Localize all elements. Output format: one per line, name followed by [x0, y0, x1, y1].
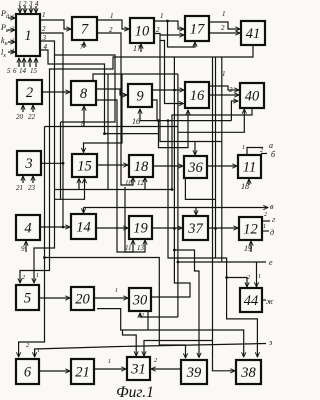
svg-text:2: 2 [247, 275, 250, 281]
wire block 9 out2 join [152, 100, 157, 121]
svg-text:4: 4 [12, 47, 15, 54]
wire block 15 out to block 18 [97, 164, 128, 166]
svg-text:1: 1 [42, 11, 46, 19]
wire bus x215.5 down to block 38 top 2 [216, 57, 258, 357]
wire block 1 out2 vertical bus x63 [40, 33, 63, 227]
wire block 8 bottom stub [83, 106, 85, 126]
svg-text:12: 12 [137, 179, 145, 187]
wire block 44 out to terminal zh [262, 299, 266, 301]
block 12 [239, 217, 262, 240]
block 18 [129, 155, 153, 177]
svg-text:17: 17 [190, 22, 205, 38]
wire terminal e feed to block 44 input 1 [256, 262, 258, 287]
block 31 [127, 357, 150, 380]
wire block 1 out1 to block 7 [40, 20, 71, 29]
wire block 6 out to block 21 [39, 370, 70, 372]
svg-text:2: 2 [229, 86, 233, 94]
wire bus x44.5 down to block 6 input 2 [19, 127, 45, 358]
svg-text:1: 1 [222, 10, 226, 18]
svg-text:3: 3 [28, 0, 33, 8]
wire net y189.5 across [55, 189, 173, 191]
wire block 30 bottom right down [147, 311, 149, 330]
svg-text:1: 1 [24, 28, 31, 44]
wire feeder into block 40 bottom [178, 109, 244, 132]
wire block 21 out to block 31 [94, 368, 126, 370]
wire block 16 out2 to block 40 [209, 94, 239, 96]
block 7 [72, 17, 97, 40]
svg-text:20: 20 [16, 113, 24, 121]
wire block 7 out2 to block 18 bottom 1 [97, 33, 133, 185]
junction at 63,163.3 [62, 162, 65, 165]
block 4 [16, 215, 40, 240]
wire input 4 top of block 1 [35, 6, 37, 13]
block 36 [184, 156, 207, 178]
block 8 [71, 81, 96, 105]
wire block 12 bottom stub 19 [250, 241, 252, 252]
junction at 172,189.5 [171, 188, 174, 191]
junction at 44.5,257.5 [43, 256, 46, 259]
svg-text:16: 16 [190, 88, 205, 104]
svg-text:10: 10 [125, 179, 133, 187]
wire staircase to block 39 top 2 [174, 250, 199, 358]
wire feed into block 15 top [84, 74, 123, 153]
wire block 30 out feedback up [151, 250, 190, 297]
block 39 [181, 360, 207, 384]
wire block 8 top out to y74 [93, 74, 178, 81]
terminal letter labels [266, 141, 276, 347]
svg-text:11: 11 [125, 244, 131, 252]
block 2 [17, 80, 42, 104]
svg-text:21: 21 [16, 184, 23, 192]
wire input Pv left of block 1 [8, 29, 15, 31]
wire input Pd left of block 1 [8, 17, 15, 19]
svg-text:14: 14 [19, 67, 27, 75]
wire input 15 bottom of block 1 [35, 58, 37, 67]
block 6 [16, 359, 39, 384]
wire input 1 top of block 1 [19, 6, 21, 13]
wire block 16 out1 to block 40 [209, 86, 239, 90]
block 44 [240, 288, 262, 312]
svg-text:18: 18 [241, 182, 249, 191]
junction at 174.4,250 [173, 249, 176, 252]
wire bus x168 down to y258 [168, 121, 216, 258]
svg-text:12: 12 [243, 222, 258, 238]
wire block 17 out2 to block 41 [209, 32, 240, 34]
wire block 19 out to block 37 [152, 227, 182, 229]
wire feeder into block 16 bottom [159, 110, 189, 148]
svg-text:1: 1 [222, 70, 226, 78]
svg-text:1: 1 [115, 288, 118, 294]
svg-text:2: 2 [23, 0, 27, 8]
block 3 [17, 151, 41, 175]
svg-text:7: 7 [80, 43, 84, 51]
block 10 [130, 18, 154, 43]
wire branch into block 17 left 2 [160, 34, 184, 36]
svg-text:2: 2 [109, 26, 113, 34]
svg-text:15: 15 [30, 67, 38, 75]
junction at 168,120.6 [167, 119, 170, 122]
wire net y126.5 across [45, 126, 178, 128]
wire block 11 bottom stub 18 [248, 179, 250, 185]
block 19 [129, 216, 152, 239]
svg-text:4: 4 [35, 0, 39, 8]
svg-text:2: 2 [264, 212, 267, 218]
junction at 104.5,133.6 [103, 132, 106, 135]
svg-text:17: 17 [133, 44, 142, 53]
wire block 1 out4 [40, 50, 105, 134]
block 15 [72, 154, 97, 177]
wire net y330 to block 31 top 1 [123, 330, 137, 356]
wire long net y120.6 into block 9 bottom [140, 109, 231, 121]
wire long net y207.5 to terminal v [84, 207, 269, 209]
svg-text:11: 11 [243, 160, 256, 176]
junction at 174.4,228.5 [173, 227, 176, 230]
junction at 226.6,277.5 [225, 276, 228, 279]
wire net y120.6 up into block 40 left [231, 101, 238, 121]
wire input 21 bottom of block 3 [22, 176, 24, 183]
svg-text:ж: ж [266, 297, 274, 306]
left input signal labels [0, 9, 9, 59]
svg-text:1: 1 [160, 12, 164, 20]
svg-text:36: 36 [187, 160, 203, 176]
wire block 10 out2 long [154, 34, 222, 142]
wire block 10 out1 to block 17 [154, 21, 184, 29]
svg-text:3: 3 [42, 34, 47, 42]
wire block 12 out2 to terminal g [262, 220, 270, 222]
wire bus x60.5 join [60, 122, 62, 199]
svg-text:16: 16 [132, 117, 140, 126]
wire input 22 bottom of block 2 [32, 105, 34, 112]
wire input kn left of block 1 [8, 41, 15, 43]
junction at 177.9,262 [177, 261, 180, 264]
svg-text:1: 1 [18, 0, 22, 8]
wire riser into block 18 bottom 2 [144, 178, 146, 190]
junction at 158.5,120.6 [157, 119, 160, 122]
svg-text:9: 9 [21, 245, 25, 253]
wire arrow into block 14 top [83, 208, 85, 214]
junction at 63,227 [62, 226, 65, 229]
svg-text:3: 3 [24, 156, 32, 172]
wire block 36 bottom out [185, 178, 215, 199]
wire arrow into block 36 top [194, 142, 196, 156]
svg-text:4: 4 [24, 221, 31, 237]
wire input 9 bottom of block 4 [25, 241, 27, 252]
wire block 9 out1 to block 16 [152, 89, 184, 91]
wire net y257.5 to block 39 top 1 [45, 258, 186, 359]
wire block 7 bottom stub [83, 42, 85, 48]
svg-text:2: 2 [12, 26, 15, 32]
svg-text:44: 44 [244, 293, 259, 309]
wire bus x125 to block 19 bottom 2 [125, 187, 145, 252]
wire block 8 out1 to block 9 [96, 89, 127, 95]
svg-text:2: 2 [156, 26, 160, 34]
svg-text:10: 10 [135, 24, 150, 40]
wire block 2 out to block 8 [42, 91, 70, 93]
svg-text:4: 4 [44, 43, 48, 51]
svg-text:2: 2 [26, 343, 29, 349]
block 11 [238, 155, 261, 178]
wire bus x108 [107, 74, 109, 190]
svg-text:2: 2 [22, 275, 25, 281]
wire block 17 out1 to block 41 [209, 22, 240, 29]
wire branch into block 44 input 2 [227, 278, 247, 288]
svg-text:2: 2 [26, 85, 33, 101]
block 41 [241, 21, 265, 45]
block 21 [71, 359, 94, 384]
wire block 20 out to block 30 [94, 297, 128, 299]
wire net y340.5 to block 31 top 2 [144, 341, 213, 357]
junction at 174.4,90 [173, 89, 176, 92]
block 9 [128, 84, 152, 107]
wire bus x212.5 long [212, 57, 214, 352]
svg-text:8: 8 [81, 120, 85, 128]
wire block 1 out3 across to bus [40, 41, 115, 122]
junction at 167.5,21 [166, 20, 169, 23]
svg-text:22: 22 [28, 113, 36, 121]
svg-text:40: 40 [245, 89, 260, 105]
svg-text:г: г [272, 215, 275, 224]
wire input 2 top of block 1 [24, 6, 26, 13]
block 14 [71, 214, 96, 239]
block 40 [240, 83, 264, 108]
svg-text:1: 1 [110, 12, 114, 20]
block 30 [129, 288, 151, 311]
svg-text:38: 38 [240, 365, 256, 381]
wire terminal z to block 6 input 1 [35, 344, 266, 358]
wire block 12 out1 to terminal d [262, 230, 269, 232]
wire input 6 bottom of block 1 [23, 58, 25, 67]
wire net y317 into block 30 bottom [140, 313, 178, 317]
pin and signal number labels [7, 0, 267, 365]
svg-text:41: 41 [246, 26, 261, 42]
wire bus x174 down [173, 57, 175, 250]
wire bus x221.8 down [221, 57, 223, 262]
wire block 37 out to block 12 [208, 227, 238, 229]
svg-text:5: 5 [7, 67, 11, 75]
block 20 [71, 287, 94, 310]
svg-text:1: 1 [108, 359, 111, 365]
svg-text:Фиг.1: Фиг.1 [116, 384, 154, 400]
block 5 [16, 285, 39, 310]
wire staircase into block 16 left low [160, 41, 184, 104]
wire input 3 top of block 1 [30, 6, 32, 13]
svg-text:1: 1 [37, 348, 40, 354]
svg-text:21: 21 [75, 365, 90, 381]
svg-text:9: 9 [136, 89, 144, 105]
svg-text:37: 37 [187, 221, 203, 237]
svg-text:19: 19 [244, 244, 252, 253]
svg-text:2: 2 [260, 148, 263, 154]
svg-text:2: 2 [221, 24, 225, 32]
svg-text:1: 1 [36, 273, 39, 279]
svg-text:14: 14 [76, 220, 91, 236]
wire input 5 bottom of block 1 [18, 58, 20, 67]
svg-text:13: 13 [137, 244, 145, 252]
wire block 7 out1 to block 10 [97, 20, 129, 29]
wire bus x212.5 into block 38 left [213, 352, 236, 371]
wire branch y133.6 [105, 133, 159, 135]
wire block 11 out1 to terminal a [247, 148, 263, 156]
wire block 36 out to block 11 [207, 165, 237, 167]
wire block 4 out to block 14 [40, 226, 70, 228]
wire branch y199.3 into block 15 bottom right [55, 179, 85, 200]
svg-text:1: 1 [263, 224, 266, 230]
svg-text:6: 6 [24, 365, 32, 381]
block 38 [236, 360, 261, 384]
svg-text:1: 1 [258, 274, 261, 280]
svg-text:6: 6 [13, 67, 17, 75]
block 1 [16, 14, 40, 56]
wire block 14 out to block 19 [96, 227, 128, 229]
wire block 10 bottom stub [140, 44, 142, 52]
wire block 39 out to block 31 [151, 368, 181, 370]
wire block 3 out to bus x63 [41, 162, 63, 164]
svg-text:2: 2 [141, 313, 144, 319]
wire input lx left of block 1 [8, 51, 15, 53]
svg-text:8: 8 [80, 86, 88, 102]
svg-text:31: 31 [130, 362, 146, 378]
svg-text:2: 2 [42, 25, 46, 33]
svg-text:д: д [270, 228, 274, 237]
svg-text:19: 19 [133, 221, 148, 237]
wire block 40 bottom feedback to net y189.5 [172, 108, 252, 190]
svg-text:3: 3 [11, 38, 15, 44]
junction at 215.5,228.5 [214, 227, 217, 230]
svg-text:7: 7 [81, 22, 89, 38]
svg-text:23: 23 [28, 184, 36, 192]
wire block 11 out2 to terminal b [261, 153, 267, 155]
svg-text:1: 1 [242, 145, 245, 151]
svg-text:15: 15 [77, 159, 92, 175]
svg-text:1: 1 [12, 14, 15, 20]
wire block 8 out2 to block 19 bottom 1 [96, 100, 133, 252]
wire input 14 bottom of block 1 [29, 58, 31, 67]
wire bus x54.5 down to block 5 input 1 [34, 55, 55, 283]
block 37 [183, 216, 208, 240]
block 17 [185, 16, 209, 41]
svg-text:е: е [269, 258, 273, 267]
wire block 18 out to block 36 [153, 165, 183, 167]
wire input 20 bottom of block 2 [22, 105, 24, 112]
wire arrow into block 37 top [195, 208, 197, 216]
svg-text:2: 2 [154, 358, 157, 364]
svg-text:39: 39 [186, 365, 202, 381]
wire net y330 to block 38 top 1 [97, 309, 244, 357]
wire riser into block 15 bottom left [78, 179, 80, 190]
svg-text:30: 30 [132, 293, 148, 309]
svg-text:18: 18 [134, 159, 149, 175]
wire junction bus x167.5 to block 17 bottom [168, 21, 196, 47]
block 16 [185, 82, 209, 108]
wire block 41 bottom feedback to block 5 input 2 [20, 45, 253, 283]
svg-text:5: 5 [24, 291, 31, 307]
svg-text:в: в [270, 202, 274, 211]
svg-text:з: з [268, 338, 272, 347]
svg-text:20: 20 [75, 292, 90, 308]
svg-text:а: а [269, 141, 273, 150]
wire input 23 bottom of block 3 [32, 176, 34, 183]
wire block 5 out to block 20 [39, 297, 70, 299]
wire terminal e branch [178, 261, 266, 263]
wire bus x177.9 down [177, 74, 179, 317]
